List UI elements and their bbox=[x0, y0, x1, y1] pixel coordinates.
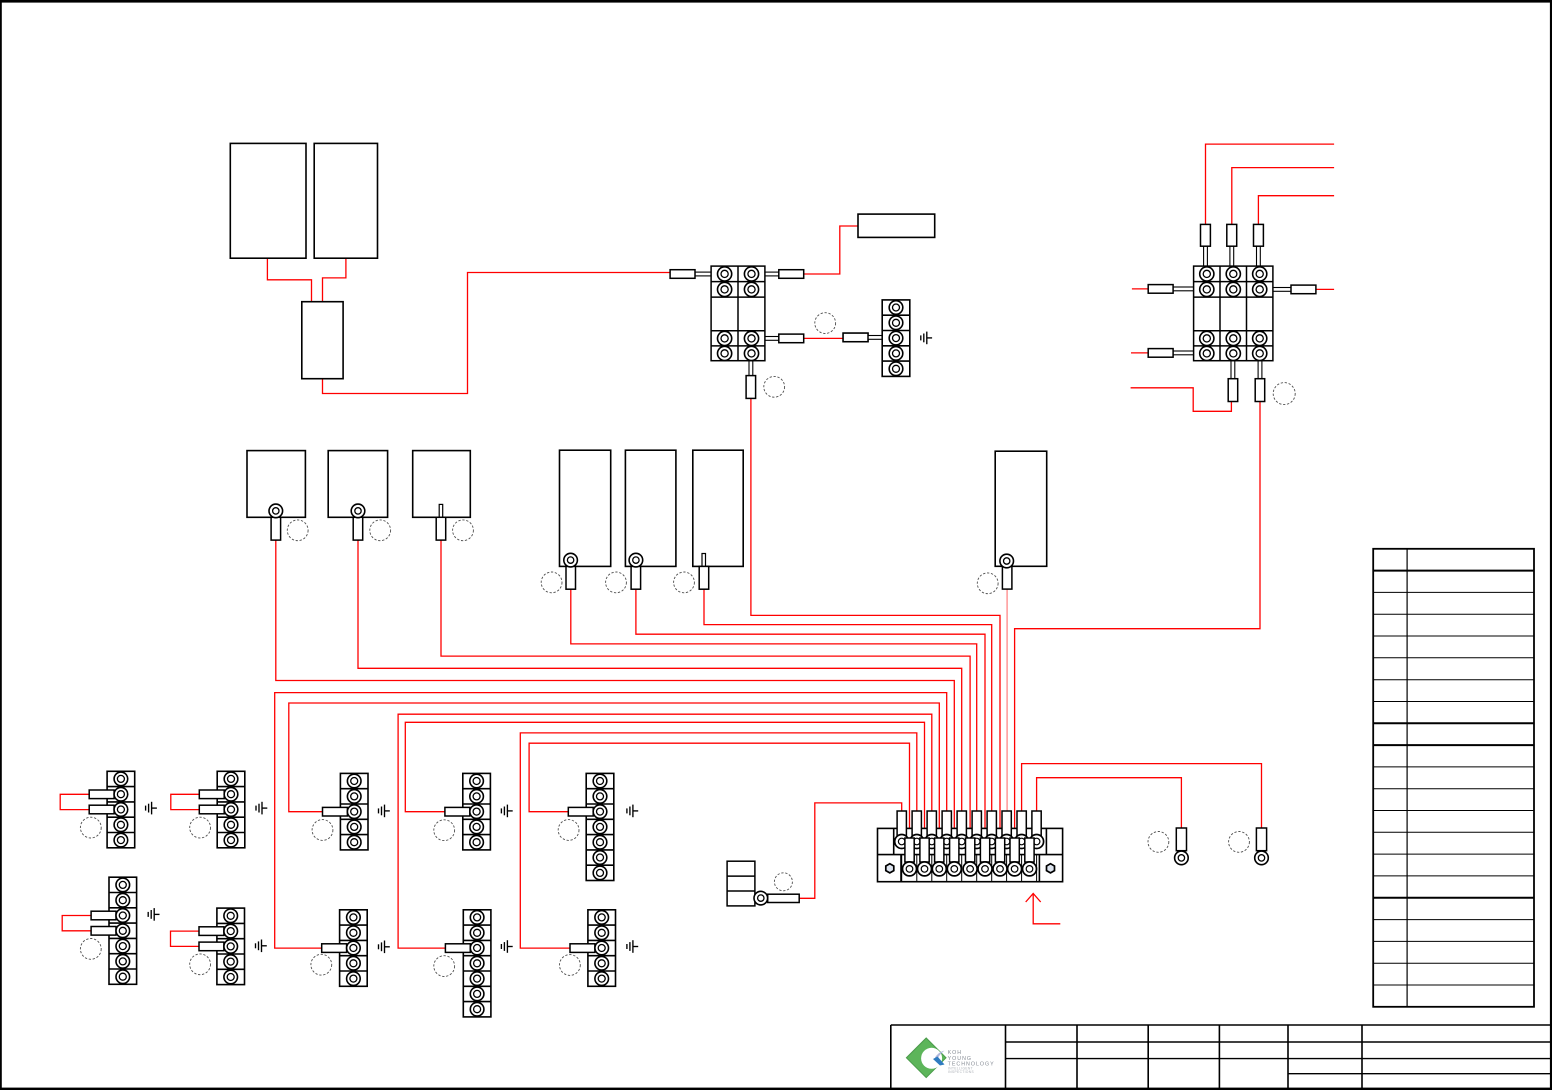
svg-text:INSPECTIONS: INSPECTIONS bbox=[948, 1070, 974, 1074]
